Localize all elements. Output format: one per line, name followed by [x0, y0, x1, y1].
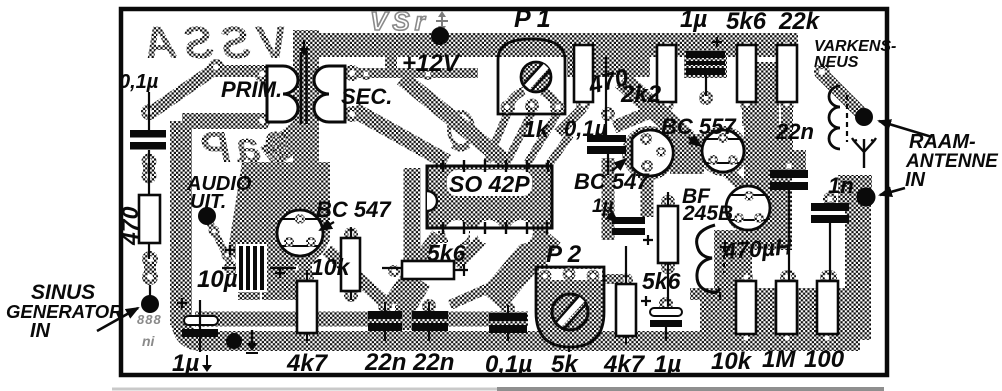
node antenna dot lower: [857, 188, 876, 207]
svg-text:GENERATOR: GENERATOR: [6, 301, 123, 322]
svg-text:10µ: 10µ: [197, 266, 238, 293]
wire 1u right stub: [665, 327, 667, 341]
potentiometer P2 body: [536, 267, 604, 347]
arrow 1u mid pointer: [608, 214, 618, 222]
capacitor 0,1u bottom: [489, 313, 527, 321]
svg-text:VARKENS-: VARKENS-: [814, 38, 896, 55]
svg-text:SEC.: SEC.: [341, 84, 392, 109]
wire BC557 to BF245: [723, 168, 749, 192]
resistor 5k6 top: [737, 45, 756, 102]
wire diagonal IC pin1 to 22n cap 1: [390, 234, 437, 301]
capacitor 22n bottom 1: [368, 311, 402, 319]
node solder pads: [141, 38, 837, 347]
plus mark 470uH: [720, 242, 730, 252]
arrow raam antenne upper: [879, 121, 932, 137]
transformer T1 secondary winding: [314, 66, 345, 122]
svg-text:VSr: VSr: [370, 6, 430, 36]
svg-text:888: 888: [137, 312, 162, 327]
wire mass behind bottom right resistors: [700, 288, 871, 340]
wire 0,1u left to resistor: [148, 150, 150, 196]
svg-text:P 2: P 2: [546, 241, 582, 268]
wire pad to primary top: [214, 65, 266, 77]
svg-text:100: 100: [804, 346, 845, 373]
wire blob under BC547 left: [270, 203, 330, 263]
svg-text:470: 470: [117, 206, 143, 246]
wire 10u left trace: [240, 263, 260, 300]
resistor 5k6 horizontal: [402, 261, 454, 279]
capacitor 1n: [811, 203, 849, 211]
wire 4k7 left stubs: [306, 270, 308, 341]
svg-text:ni: ni: [142, 333, 156, 349]
capacitor 0,1u mid: [587, 135, 626, 142]
svg-text:+12V: +12V: [402, 50, 461, 77]
wire BC547 emitter down: [641, 173, 654, 217]
wire 10k mid stubs: [350, 228, 352, 300]
svg-text:22n: 22n: [775, 119, 814, 144]
plus mark 1u top: [712, 37, 722, 47]
wire between transistors: [670, 134, 704, 174]
wire 2k2 bottom diagonal: [614, 105, 667, 127]
svg-text:2k2: 2k2: [620, 81, 662, 108]
wire BF245 down to coil: [743, 228, 755, 248]
svg-text:10k: 10k: [711, 348, 753, 375]
wire below 5k6 left end: [403, 280, 420, 308]
svg-text:4k7: 4k7: [603, 351, 646, 378]
node +12V supply dot: [431, 27, 449, 45]
wire band bump at 1u cap: [684, 57, 727, 78]
wire left diagonal to 0,1u cap: [149, 68, 216, 114]
wire 0,1u left top: [148, 92, 150, 130]
wire blob under BC557: [698, 126, 748, 176]
svg-text:1k: 1k: [523, 116, 550, 142]
wire main diagonal IC pin6 to 0,1u bottom: [492, 233, 549, 301]
transistor BC557: [702, 130, 744, 172]
op-amp U1 pin1 notch: [427, 191, 437, 211]
wire bottom band separator: [228, 328, 528, 331]
wire 0,1u bottom stubs: [507, 305, 509, 341]
svg-text:0,1µ: 0,1µ: [119, 71, 159, 93]
wire 22k down to 22n cap: [781, 102, 793, 168]
wire diagonal to 22n cap 2: [450, 283, 500, 305]
wire bottom upper band: [195, 312, 528, 327]
arrow BC547 mid pointer: [612, 159, 626, 171]
wire 0,1u mid vertical: [606, 57, 608, 175]
wire P2 bottom lead: [568, 346, 570, 352]
wire band to BC557 diagonal: [622, 80, 688, 140]
resistor 5k6 right: [658, 206, 678, 263]
svg-text:P 1: P 1: [514, 5, 551, 33]
wire coil bottom lead: [719, 292, 721, 300]
svg-text:1µ: 1µ: [654, 351, 681, 378]
transformer T1 primary winding: [267, 66, 298, 122]
wire top band thick section: [567, 51, 650, 77]
transformer T1 top arrow: [303, 40, 305, 50]
svg-text:1n: 1n: [828, 173, 854, 198]
svg-text:470µH: 470µH: [722, 233, 793, 264]
wire column left of IC: [404, 168, 421, 270]
resistor 100 bottom: [817, 281, 838, 334]
capacitor 22n bottom 2: [412, 311, 448, 319]
wire diagonal behind 10k: [327, 250, 390, 307]
svg-text:1µ: 1µ: [680, 6, 707, 33]
wire 1n down to 100: [829, 223, 831, 281]
svg-text:BC 547: BC 547: [316, 197, 392, 222]
resistor 4k7 left: [297, 281, 317, 333]
svg-text:5k6: 5k6: [427, 240, 466, 266]
wire bottom ground band: [181, 318, 860, 341]
wire blob right of 10u: [272, 235, 298, 262]
resistor 22k: [777, 45, 797, 102]
op-amp U1 pin ticks: [443, 160, 548, 234]
wire diagonal IC pin3 to 5k6 lead: [456, 232, 489, 266]
inductor 470uH coil: [697, 225, 720, 293]
wire coil area mass: [714, 230, 752, 300]
svg-text:1µ: 1µ: [592, 196, 614, 217]
plus mark 1u bottom-left: [177, 298, 187, 308]
arrow BC557 pointer: [688, 137, 701, 146]
wire top supply band: [302, 33, 798, 57]
wire blob under BF245: [725, 185, 773, 233]
ground symbol near dot: [251, 330, 253, 344]
wire blob under BC547 mid: [622, 126, 676, 180]
wire resistor 470 left bottom: [149, 243, 150, 297]
svg-text:0,1µ: 0,1µ: [564, 116, 608, 141]
capacitor 1u mid electrolytic: [612, 217, 645, 224]
scan artifact line below frame: [112, 388, 497, 391]
wire sec lower diagonal: [354, 110, 447, 162]
wire band to trace link: [385, 50, 397, 75]
svg-text:5k6: 5k6: [642, 268, 681, 294]
node copper squiggle logo: [449, 112, 473, 146]
transformer T1 core: [300, 52, 303, 124]
wire emitter to 4k7: [298, 252, 307, 272]
capacitor 10u electrolytic: [236, 244, 267, 292]
svg-text:IN: IN: [30, 320, 51, 342]
node audio out dot: [198, 207, 216, 225]
wire left vertical trace: [170, 121, 192, 325]
svg-text:4k7: 4k7: [286, 350, 329, 377]
wire stub near P2: [534, 240, 540, 260]
svg-text:5k6: 5k6: [726, 8, 767, 35]
arrow BC547 left pointer: [320, 222, 334, 230]
resistor 4k7 right: [616, 284, 636, 336]
svg-text:245B: 245B: [682, 202, 733, 225]
wire 5k6 horizontal leads: [382, 264, 468, 276]
wire 5k6 right leads: [667, 192, 669, 306]
wire under 0,1u mid: [602, 158, 615, 240]
wire 1u top down: [705, 75, 707, 96]
plus mark 1u mid: [643, 235, 653, 245]
capacitor varkensneus trimmer: [829, 86, 840, 149]
wire IC pin stubs: [443, 231, 527, 245]
arrow raam antenne lower: [880, 188, 905, 195]
svg-text:BC 547: BC 547: [574, 169, 650, 194]
wire diagonals IC to P1: [487, 112, 508, 162]
capacitor 0,1u left: [130, 130, 166, 138]
wire transformer column bend: [268, 128, 306, 158]
svg-text:IN: IN: [905, 169, 926, 191]
wire coil mass left foot: [690, 288, 714, 300]
plus mark 1u right: [641, 296, 651, 306]
plus mark 10u: [275, 268, 285, 278]
wire +12V horizontal trace: [345, 68, 478, 78]
antenna symbol: [852, 138, 876, 168]
potentiometer P1 body: [506, 91, 524, 114]
svg-text:22n: 22n: [412, 349, 454, 376]
wire blob above 22n right: [768, 150, 806, 172]
wire 1n top to right band: [838, 175, 872, 205]
svg-text:5k: 5k: [551, 351, 579, 378]
svg-text:BC 557: BC 557: [661, 114, 737, 139]
wire diagonal to IC pin4: [402, 78, 505, 161]
wire mass below BC547 left: [262, 232, 312, 300]
svg-text:RAAM-: RAAM-: [909, 131, 976, 153]
resistor 1M bottom: [776, 281, 797, 334]
transistor BF245B: [726, 186, 770, 230]
svg-text:1M: 1M: [762, 346, 796, 373]
node sinus generator in dot: [141, 295, 159, 313]
wire varkensneus diagonal: [822, 74, 862, 114]
wire 4k7 right leads: [625, 246, 627, 344]
svg-text:0,1µ: 0,1µ: [485, 351, 532, 378]
svg-text:22n: 22n: [364, 349, 406, 376]
wire into bottom band: [395, 305, 413, 330]
transistor BC547 left: [277, 210, 323, 256]
ground symbol below 1u label: [206, 355, 208, 366]
wire link to P2 top left pad: [538, 256, 545, 273]
svg-text:9aP: 9aP: [197, 123, 290, 172]
svg-text:NEUS: NEUS: [814, 54, 859, 71]
capacitor 22n right: [770, 170, 808, 178]
node antenna dot upper: [855, 108, 873, 126]
resistor 2k2: [657, 45, 676, 102]
wire 10u leads: [222, 267, 296, 269]
svg-text:22k: 22k: [778, 8, 821, 35]
wire horizontal to transformer primary: [182, 113, 268, 129]
svg-text:PRIM.: PRIM.: [221, 77, 282, 102]
ground dot bottom left: [226, 333, 242, 349]
svg-text:UIT.: UIT.: [190, 191, 226, 213]
op-amp U1 IC SO42P body: [427, 166, 552, 228]
wire 5k6 top bottom link: [742, 104, 752, 126]
svg-text:10k: 10k: [311, 254, 351, 280]
resistor 10k bottom: [736, 281, 756, 334]
svg-text:SO 42P: SO 42P: [449, 171, 530, 197]
arrow sinus generator: [97, 308, 138, 331]
wire transformer vertical trace: [293, 30, 319, 200]
wire 22n right down to 1M: [788, 190, 790, 281]
wire column behind BF245: [744, 126, 792, 250]
wire P2 to 4k7 right: [598, 274, 624, 284]
transistor BC547 mid: [632, 130, 673, 176]
wire right vertical band: [845, 203, 871, 332]
capacitor 1u bottom-left electrolytic: [184, 316, 218, 325]
wire mass around BC547 left: [228, 162, 330, 300]
wire vertical band to 22n right: [749, 62, 779, 145]
wire 22n caps stubs: [385, 302, 429, 341]
board frame: [121, 9, 887, 375]
resistor 470 left: [139, 195, 160, 243]
resistor 10k mid: [341, 238, 360, 291]
wire audio out diagonal: [209, 221, 232, 266]
wire 470 bottom diagonal: [558, 108, 583, 133]
resistor 470 top: [574, 45, 593, 102]
capacitor 1u top electrolytic: [686, 51, 725, 58]
svg-text:1µ: 1µ: [172, 350, 199, 377]
capacitor 1u right electrolytic: [650, 308, 682, 316]
